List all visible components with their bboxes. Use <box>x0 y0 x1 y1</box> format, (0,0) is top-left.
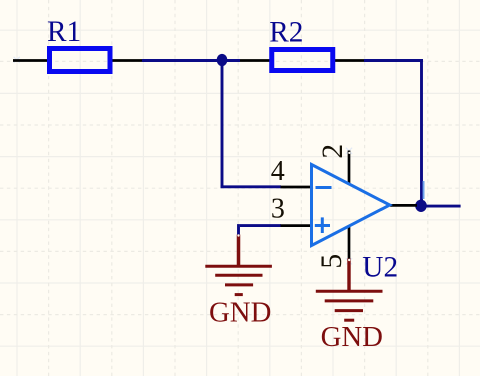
svg-text:GND: GND <box>209 296 271 328</box>
svg-text:3: 3 <box>271 193 285 224</box>
svg-text:R2: R2 <box>269 16 303 48</box>
svg-text:5: 5 <box>316 254 348 269</box>
svg-text:4: 4 <box>271 156 285 187</box>
svg-text:2: 2 <box>317 144 349 159</box>
svg-text:U2: U2 <box>362 251 398 283</box>
svg-text:GND: GND <box>321 321 383 353</box>
svg-text:R1: R1 <box>47 16 81 48</box>
